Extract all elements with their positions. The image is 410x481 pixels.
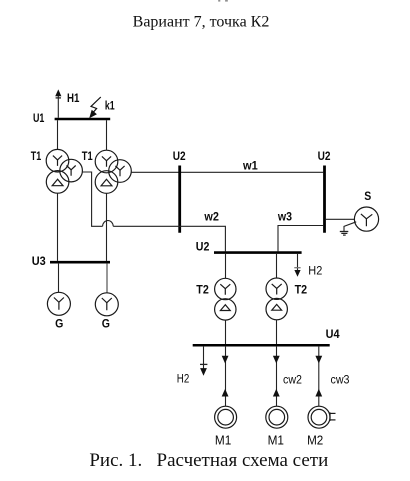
feeder M1 left wire: [225, 347, 227, 407]
svg-text:U2: U2: [196, 240, 210, 254]
busbar U4: [193, 344, 330, 347]
wire to system S: [326, 218, 355, 220]
svg-text:T1: T1: [82, 149, 93, 163]
transformer T1 left: [46, 149, 82, 193]
svg-text:U2: U2: [173, 149, 186, 163]
motor M1 mid: [266, 406, 288, 428]
feeder M1 mid wire: [276, 347, 278, 407]
svg-text:w2: w2: [204, 210, 220, 224]
svg-text:T2: T2: [196, 283, 209, 297]
svg-text:cw3: cw3: [331, 374, 350, 386]
transformer T2 left: [215, 278, 236, 320]
load arrow H2 right: [294, 254, 300, 277]
svg-text:S: S: [364, 189, 371, 203]
transformer T2 right: [266, 278, 287, 320]
load arrow H2 bottom: [200, 347, 207, 376]
feeder M2 arrows: [315, 356, 322, 397]
wire T1 right winding to U2 busbar and line w1 to right busbar: [131, 171, 323, 173]
svg-text:H2: H2: [308, 266, 322, 278]
transformer T1 right: [95, 150, 131, 193]
svg-text:U3: U3: [32, 254, 46, 268]
system source S: [354, 207, 378, 231]
busbar U3: [50, 261, 110, 264]
feeder M1 mid arrows: [273, 356, 280, 397]
wire w2 to middle busbar: [113, 226, 225, 251]
svg-text:U4: U4: [326, 327, 340, 341]
motor M2: [308, 406, 336, 428]
svg-text:Вариант 7, точка К2: Вариант 7, точка К2: [133, 14, 270, 31]
wire T2 left to U4: [225, 320, 227, 344]
svg-text:U1: U1: [33, 111, 45, 125]
wire U1 to T1 right: [106, 120, 108, 150]
wire T1 right delta to U3: [106, 193, 108, 261]
svg-text:M1: M1: [215, 432, 231, 447]
svg-text:M1: M1: [268, 432, 284, 447]
ground of S: [340, 222, 356, 235]
wire U2 middle to T2 right: [276, 254, 278, 278]
svg-text:H1: H1: [67, 91, 80, 105]
wire U3 to G left: [58, 264, 60, 293]
generator G left: [47, 292, 70, 315]
motor M1 left: [215, 406, 237, 428]
svg-text:M2: M2: [307, 432, 323, 447]
wire from T1 left winding down: [82, 172, 102, 226]
wire T1 left delta to U3: [57, 193, 59, 261]
busbar U2 right: [323, 166, 326, 233]
partial header marks: [218, 0, 228, 2]
wire U1 to T1 left: [57, 120, 59, 149]
busbar U1: [55, 118, 111, 121]
busbar U2 left: [178, 166, 181, 233]
svg-text:w3: w3: [277, 210, 292, 224]
svg-text:k1: k1: [105, 98, 115, 112]
wire T2 right to U4: [276, 320, 278, 344]
svg-text:w1: w1: [242, 159, 258, 173]
wire U3 to G right: [106, 264, 108, 293]
wire w3 from right busbar to middle busbar: [278, 226, 323, 252]
svg-text:T2: T2: [295, 283, 308, 297]
svg-text:T1: T1: [31, 149, 42, 163]
svg-text:Рис. 1. Расчетная схема сети: Рис. 1. Расчетная схема сети: [89, 450, 328, 471]
svg-text:G: G: [55, 316, 63, 330]
busbar U2 middle: [214, 251, 302, 254]
wire hop over crossing: [103, 221, 114, 227]
feeder M2 wire: [318, 347, 320, 407]
svg-text:H2: H2: [177, 373, 190, 385]
svg-text:U2: U2: [318, 149, 331, 163]
wire U2 middle to T2 left: [225, 254, 227, 279]
svg-text:G: G: [102, 316, 110, 330]
short-circuit arrow k1: [89, 97, 101, 118]
load arrow H1: [55, 89, 61, 117]
feeder M1 left arrows: [222, 356, 229, 397]
generator G right: [95, 293, 118, 316]
svg-text:cw2: cw2: [283, 374, 302, 386]
